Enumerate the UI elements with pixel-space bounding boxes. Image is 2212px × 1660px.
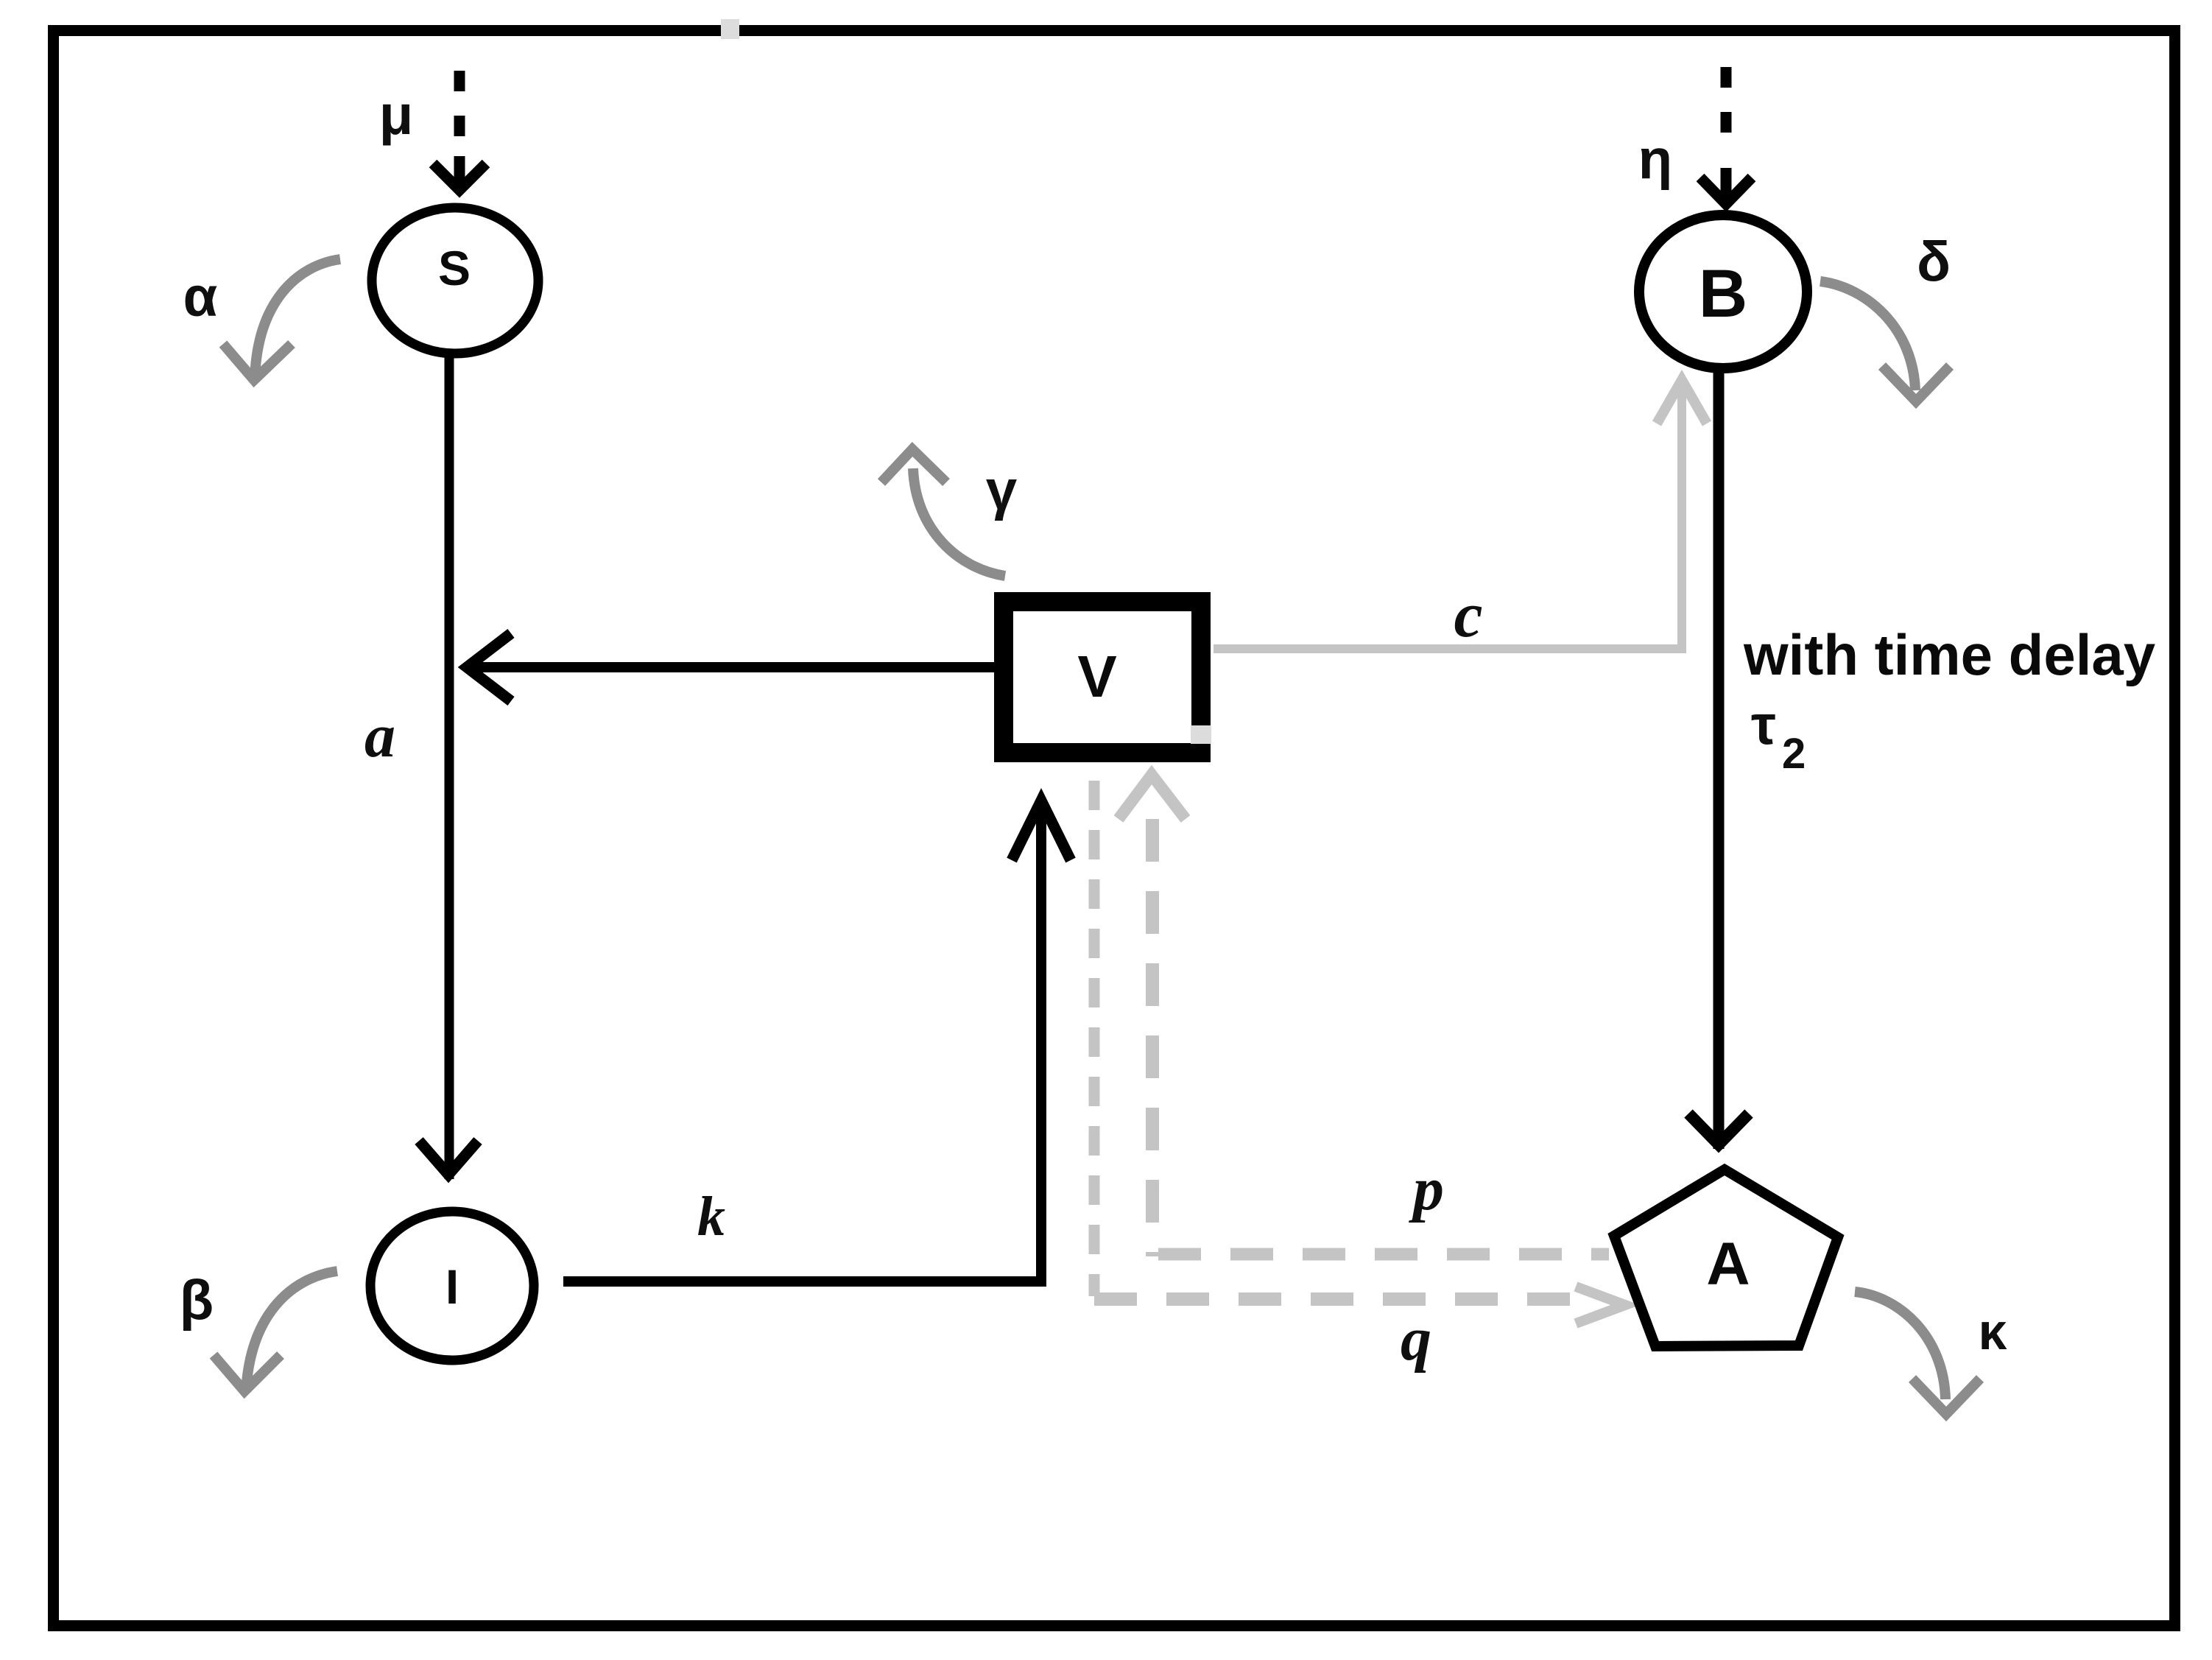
svg-text:p: p xyxy=(1409,1155,1444,1223)
removal arrow alpha xyxy=(255,259,340,381)
svg-text:q: q xyxy=(1401,1305,1431,1374)
svg-text:S: S xyxy=(438,241,471,295)
wire c from V to B xyxy=(1214,381,1682,649)
node V box xyxy=(1004,602,1201,753)
node I xyxy=(370,1211,534,1360)
svg-text:α: α xyxy=(183,266,218,328)
svg-text:μ: μ xyxy=(379,84,414,147)
removal arrow delta xyxy=(1820,281,1915,390)
dashed inflow arrow eta xyxy=(1700,67,1752,204)
node B xyxy=(1639,215,1807,368)
arrowhead into V xyxy=(1012,801,1071,860)
removal arrow beta xyxy=(246,1271,337,1392)
arrow V to S-I wire xyxy=(471,662,996,672)
svg-text:2: 2 xyxy=(1782,730,1806,778)
wire B to A with time delay xyxy=(1713,370,1725,1149)
top border notch xyxy=(721,19,739,39)
node S xyxy=(372,208,538,354)
svg-text:η: η xyxy=(1638,128,1672,191)
dashed arrow into V (thick, from p) xyxy=(1146,819,1159,1256)
removal arrow kappa xyxy=(1855,1292,1945,1399)
svg-text:γ: γ xyxy=(986,459,1017,521)
svg-text:δ: δ xyxy=(1917,231,1951,293)
wire S to I xyxy=(445,353,454,1179)
dashed wire V down (thin) to q xyxy=(1089,781,1100,1296)
svg-text:B: B xyxy=(1699,256,1747,331)
svg-text:k: k xyxy=(697,1186,725,1248)
arrowhead into I xyxy=(419,1141,478,1175)
svg-text:A: A xyxy=(1706,1231,1750,1298)
svg-text:τ: τ xyxy=(1751,694,1776,756)
dashed wire p to A xyxy=(1158,1248,1609,1261)
dashed inflow arrow mu xyxy=(433,71,486,190)
svg-text:I: I xyxy=(445,1259,459,1314)
wire k from I up to V xyxy=(563,804,1041,1281)
svg-text:κ: κ xyxy=(1978,1303,2007,1360)
svg-text:β: β xyxy=(180,1269,214,1332)
node A pentagon xyxy=(1614,1170,1838,1346)
V box corner notch xyxy=(1191,725,1211,744)
svg-text:c: c xyxy=(1454,580,1482,651)
svg-text:a: a xyxy=(364,702,395,770)
dashed arrow q into A xyxy=(1094,1293,1572,1306)
svg-text:with time delay: with time delay xyxy=(1743,622,2155,687)
removal arrow gamma xyxy=(913,468,1005,576)
svg-text:V: V xyxy=(1077,644,1116,709)
